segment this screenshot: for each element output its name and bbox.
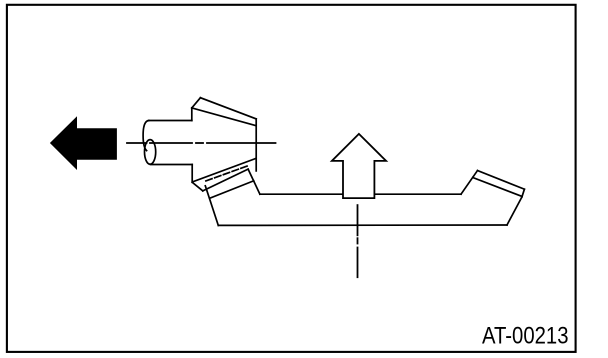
- cylinder end face ellipse: [145, 140, 156, 165]
- solid arrow (pointing left): [50, 116, 117, 170]
- cone bottom band lower line: [203, 169, 248, 191]
- cone right edge: [255, 119, 257, 171]
- bracket bar top edge: [260, 193, 461, 195]
- cylinder boss top edge: [149, 120, 192, 122]
- end tab inner edge: [473, 178, 522, 197]
- bracket arm top edge: [210, 181, 254, 199]
- cone left step upper: [191, 108, 193, 121]
- bracket bar right edge: [507, 197, 522, 225]
- cylinder boss bottom edge: [151, 164, 193, 166]
- bracket bar bottom edge: [218, 224, 507, 226]
- cone top outer slant: [200, 98, 256, 119]
- bracket arm right edge: [248, 169, 260, 194]
- cone bottom-left chamfer: [192, 182, 203, 191]
- cone top inner slant: [192, 108, 256, 126]
- vertical center line (dash-dot): [357, 205, 359, 277]
- hollow arrow (pointing up): [332, 134, 386, 198]
- hidden edge (dashed): [206, 166, 247, 181]
- horizontal center line (dash-dot): [127, 142, 276, 144]
- bracket bar bend line: [461, 171, 478, 195]
- cone bottom band upper line: [192, 158, 256, 182]
- end tab outer edge: [478, 171, 525, 190]
- cylinder rounded left end: [143, 121, 149, 151]
- end tab end face: [522, 189, 525, 197]
- cone left step lower: [191, 165, 193, 183]
- bracket arm left edge: [205, 186, 218, 226]
- cone top-left chamfer: [192, 98, 201, 108]
- svg-text:AT-00213: AT-00213: [482, 322, 569, 349]
